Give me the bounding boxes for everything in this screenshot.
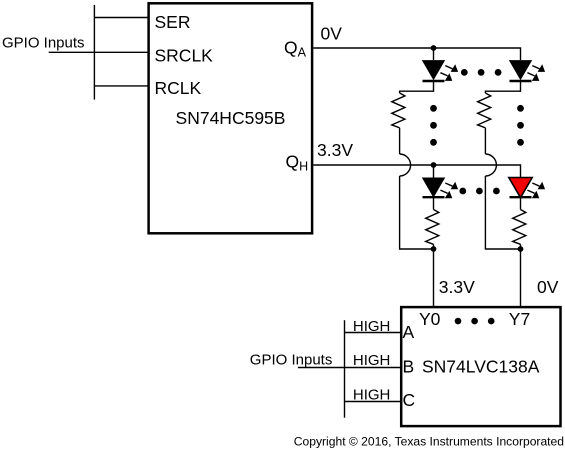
svg-text:SN74HC595B: SN74HC595B — [176, 108, 286, 128]
LED D3 (black, row2 col1) — [422, 178, 458, 199]
svg-text:SN74LVC138A: SN74LVC138A — [422, 356, 540, 376]
svg-text:Y0: Y0 — [419, 309, 441, 329]
wire SER — [94, 17, 148, 19]
wire D1 cathode to R1 — [400, 80, 434, 93]
ellipsis dots Y0..Y7 — [455, 318, 495, 325]
wire D2 cathode to R2 — [485, 80, 520, 93]
LED D2 (black, row1 col2) — [509, 60, 545, 81]
wire SRCLK (GPIO Inputs) — [49, 51, 149, 53]
wire B (GPIO Inputs) — [298, 367, 401, 369]
IC U2 SN74LVC138A box — [401, 307, 560, 426]
wire A — [345, 332, 402, 334]
svg-text:Y7: Y7 — [509, 309, 530, 329]
svg-text:HIGH: HIGH — [353, 386, 391, 403]
vertical ellipsis col2 — [517, 105, 524, 146]
svg-text:3.3V: 3.3V — [317, 140, 353, 160]
GPIO bus vertical (top left) — [93, 5, 95, 100]
svg-text:RCLK: RCLK — [155, 78, 202, 98]
GPIO bus vertical (bottom) — [344, 320, 346, 418]
vertical ellipsis col1 — [430, 105, 437, 146]
node junction dot col2 bottom — [518, 246, 524, 252]
svg-text:B: B — [403, 356, 415, 376]
wire 3.3V net: QH to red LED — [313, 165, 520, 178]
node junction dot col1 bottom — [431, 246, 437, 252]
wire R4 to bottom junction — [520, 244, 522, 249]
IC U1 SN74HC595B box — [149, 3, 313, 233]
LED D4 (red, row2 col2) — [509, 178, 545, 199]
wire junction to Y7 — [520, 249, 522, 307]
wire hop over 3.3V (col1) — [400, 154, 411, 176]
svg-text:3.3V: 3.3V — [439, 277, 475, 297]
svg-text:C: C — [403, 390, 416, 410]
svg-text:A: A — [403, 322, 415, 342]
wire RCLK — [94, 85, 148, 87]
wire hop bottom to bottom rail (col2) — [485, 176, 520, 249]
wire D3 to R3 — [433, 198, 435, 210]
ellipsis dots row2 — [459, 188, 499, 195]
wire junction to Y0 — [433, 249, 435, 307]
svg-text:SER: SER — [155, 12, 191, 32]
resistor R2 — [478, 93, 491, 128]
wire C — [345, 401, 402, 403]
wire anode LED D1 — [433, 48, 435, 60]
wire hop over 3.3V (col2) — [485, 154, 496, 176]
svg-text:HIGH: HIGH — [353, 352, 391, 369]
wire anode LED D3 — [433, 165, 435, 178]
svg-text:GPIO Inputs: GPIO Inputs — [250, 351, 333, 368]
node junction dot on 0V at LED D1 — [431, 45, 437, 51]
svg-text:GPIO Inputs: GPIO Inputs — [2, 35, 85, 52]
ellipsis dots row1 — [461, 69, 502, 76]
svg-text:0V: 0V — [537, 277, 559, 297]
wire 0V net: QA to top LED row — [313, 48, 520, 60]
node junction dot on 3.3V at LED D3 — [431, 162, 437, 168]
resistor R4 — [513, 210, 526, 245]
resistor R3 — [426, 210, 439, 245]
resistor R1 — [392, 93, 405, 128]
wire R2 down to hop — [484, 128, 486, 154]
wire hop bottom to bottom rail (col1) — [400, 176, 434, 249]
svg-text:SRCLK: SRCLK — [155, 46, 214, 66]
svg-text:HIGH: HIGH — [353, 318, 391, 335]
svg-text:0V: 0V — [321, 24, 343, 44]
wire D4 to R4 — [520, 198, 522, 210]
wire R1 down to hop — [399, 128, 401, 154]
svg-text:Copyright © 2016, Texas Instru: Copyright © 2016, Texas Instruments Inco… — [294, 435, 564, 449]
wire R3 to bottom junction — [433, 244, 435, 249]
LED D1 (black, row1 col1) — [422, 60, 458, 81]
